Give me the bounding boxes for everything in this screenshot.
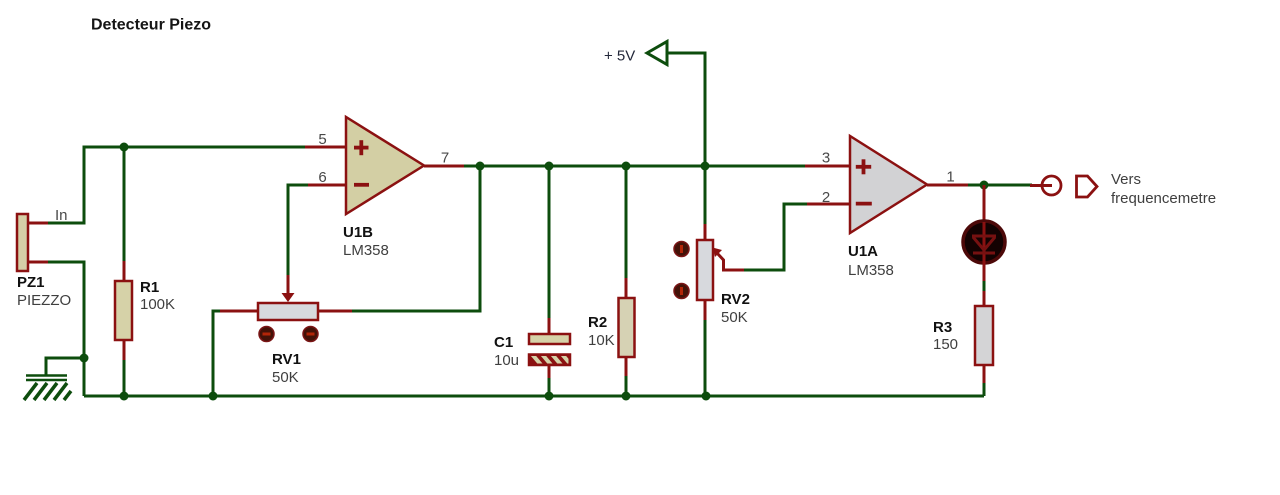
svg-text:Vers: Vers [1111, 171, 1141, 188]
capacitor C1 [529, 166, 572, 396]
svg-text:50K: 50K [721, 309, 748, 326]
svg-text:PIEZZO: PIEZZO [17, 292, 71, 309]
svg-text:Detecteur Piezo: Detecteur Piezo [91, 17, 211, 34]
LED D1 [963, 185, 1005, 283]
potentiometer RV2 [674, 166, 746, 396]
junction dot +5V/signal [701, 162, 710, 171]
svg-text:5: 5 [318, 131, 326, 148]
junction dot U1B output [476, 162, 485, 171]
wire U1B pin6 to RV1 wiper [288, 185, 308, 277]
wire U1B output to junction [464, 165, 480, 168]
svg-text:R2: R2 [588, 314, 607, 331]
svg-text:LM358: LM358 [343, 242, 389, 259]
svg-text:100K: 100K [140, 296, 175, 313]
svg-text:6: 6 [318, 169, 326, 186]
svg-text:RV1: RV1 [272, 351, 301, 368]
output arrow symbol [1077, 176, 1098, 197]
svg-text:frequencemetre: frequencemetre [1111, 190, 1216, 207]
svg-text:+ 5V: + 5V [604, 48, 635, 65]
svg-text:R1: R1 [140, 279, 159, 296]
wire R3 to rail [983, 383, 986, 396]
junction dot R2/rail [622, 392, 631, 401]
resistor R1 [115, 261, 132, 360]
svg-text:U1B: U1B [343, 224, 373, 241]
junction dot RV1/rail [209, 392, 218, 401]
svg-text:7: 7 [441, 150, 449, 167]
power +5V [647, 42, 705, 171]
svg-text:150: 150 [933, 336, 958, 353]
svg-text:R3: R3 [933, 319, 952, 336]
wire signal bus to U1A pin3 [480, 165, 806, 168]
op-amp U1B [305, 117, 466, 214]
resistor R3 [975, 291, 993, 385]
svg-text:50K: 50K [272, 369, 299, 386]
wire signal horizontal to U1B pin5 [124, 146, 306, 149]
svg-text:2: 2 [822, 189, 830, 206]
ground [24, 376, 71, 401]
wire bottom rail [84, 395, 984, 398]
junction dot R2/signal [622, 162, 631, 171]
svg-text:RV2: RV2 [721, 291, 750, 308]
wire RV2 wiper to U1A pin2 [744, 204, 808, 270]
wire U1A output to junction [968, 184, 984, 187]
potentiometer RV1 [218, 275, 352, 342]
svg-text:In: In [55, 207, 68, 224]
svg-text:3: 3 [822, 150, 830, 167]
wire output node down to RV1 right [350, 166, 480, 311]
piezo PZ1 [17, 214, 48, 271]
svg-text:LM358: LM358 [848, 262, 894, 279]
wire output to terminal [984, 184, 1032, 187]
svg-text:10u: 10u [494, 352, 519, 369]
wire ground stub [46, 358, 84, 376]
junction dot C1/rail [545, 392, 554, 401]
wire piezo bottom to ground rail [47, 262, 84, 396]
wire R1 bottom [123, 358, 126, 396]
wire RV1 left to rail [213, 311, 220, 396]
junction dot R1/rail [120, 392, 129, 401]
svg-text:1: 1 [946, 169, 954, 186]
junction dot RV2/rail [702, 392, 711, 401]
svg-text:PZ1: PZ1 [17, 274, 45, 291]
svg-text:10K: 10K [588, 332, 615, 349]
wire piezo top to signal corner [47, 147, 124, 223]
junction dot piezo/ground [80, 354, 89, 363]
junction dot U1A output [980, 181, 989, 190]
junction dot C1/signal [545, 162, 554, 171]
wire R1 top [123, 147, 126, 263]
wire LED to R3 [983, 281, 986, 293]
node A junction dot signal/R1 [120, 143, 129, 152]
op-amp U1A [805, 136, 970, 233]
terminal circle output [1030, 176, 1061, 195]
svg-text:C1: C1 [494, 334, 513, 351]
svg-text:U1A: U1A [848, 243, 878, 260]
resistor R2 [619, 166, 635, 396]
